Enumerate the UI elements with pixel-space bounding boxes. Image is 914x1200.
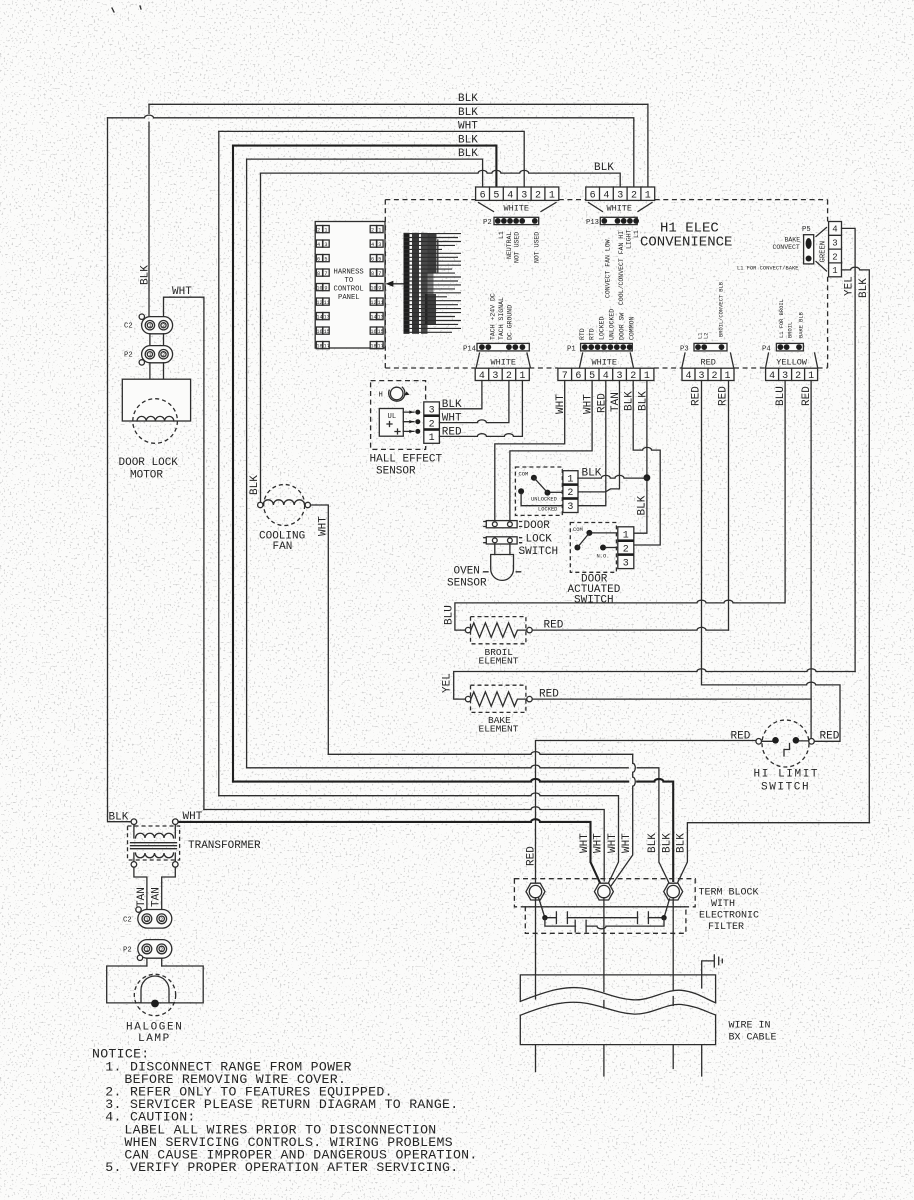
- P13 rotated signal labels: [605, 229, 641, 305]
- svg-text:4: 4: [769, 371, 775, 382]
- wire hall pin1 RED to P14 pin1 with hops: [439, 381, 522, 437]
- svg-text:RTD: RTD: [589, 328, 596, 340]
- svg-text:BLK: BLK: [647, 833, 659, 853]
- svg-text:YEL: YEL: [844, 276, 856, 296]
- wire door lock pin1 to junction with hops: [578, 475, 647, 478]
- hall effect sensor dashed box: [371, 381, 426, 450]
- BX cable bottom band: [520, 1015, 715, 1045]
- wire W1 drop to P13 pin1: [647, 104, 649, 187]
- wire C2 to P2 pins: [150, 334, 164, 346]
- P1 rotated signal labels: [579, 309, 636, 340]
- BX cable bottom stubs: [536, 1045, 702, 1076]
- svg-text:BLK: BLK: [594, 162, 614, 174]
- svg-text:2: 2: [832, 252, 837, 262]
- wire W1 BLK top: [149, 103, 648, 105]
- harness to control panel block: [315, 222, 385, 349]
- wire P5 BLK y822.7 to term3: [677, 823, 869, 884]
- svg-text:17: 17: [324, 343, 330, 349]
- svg-text:LOCKED: LOCKED: [538, 506, 557, 512]
- svg-text:9: 9: [378, 285, 381, 291]
- svg-text:BLK: BLK: [458, 107, 478, 119]
- svg-text:4: 4: [603, 190, 609, 201]
- oven sensor connector 2: [484, 537, 522, 544]
- svg-text:TAN: TAN: [610, 392, 622, 412]
- transformer terminals bottom: [131, 862, 137, 868]
- term block dashed box: [514, 879, 695, 907]
- svg-text:TACH +24V DC: TACH +24V DC: [490, 293, 497, 340]
- wire hall pin2 WHT to P14 pin2 with hop: [439, 381, 509, 423]
- wire broil RED to P3 pin1 with hop: [532, 627, 728, 630]
- svg-text:6: 6: [480, 190, 486, 201]
- svg-text:BROIL: BROIL: [788, 322, 794, 338]
- transformer primary coil: [134, 825, 175, 839]
- svg-text:BLK: BLK: [458, 135, 478, 147]
- svg-text:13: 13: [324, 314, 330, 320]
- svg-text:ELEMENT: ELEMENT: [479, 724, 519, 735]
- svg-text:TRANSFORMER: TRANSFORMER: [188, 840, 261, 852]
- svg-text:18: 18: [316, 343, 322, 349]
- svg-text:1: 1: [149, 323, 152, 329]
- svg-text:6: 6: [590, 190, 596, 201]
- wire P1 pin3 TAN to door lock sw pin2: [578, 381, 620, 492]
- svg-text:1: 1: [324, 227, 327, 233]
- svg-text:BLK: BLK: [858, 278, 870, 298]
- svg-text:WHITE: WHITE: [504, 204, 530, 214]
- connector P2 (halogen): [123, 940, 172, 961]
- svg-text:BROIL/CONVECT BLB: BROIL/CONVECT BLB: [719, 281, 725, 337]
- svg-text:C2: C2: [124, 323, 133, 331]
- svg-text:5: 5: [324, 256, 327, 262]
- wire P3 pin1 vertical: [728, 381, 730, 631]
- ground symbol: [702, 961, 714, 975]
- wire P5 pin4 YEL: [842, 228, 856, 671]
- connector P5 pin strip: [802, 226, 814, 264]
- svg-text:2: 2: [623, 544, 629, 555]
- harness block right pin boxes: [370, 226, 383, 349]
- halogen lamp dashed circle: [134, 974, 175, 1015]
- svg-text:L1: L1: [633, 230, 640, 238]
- svg-text:NOT USED: NOT USED: [534, 232, 541, 263]
- connector P2 pin boxes: [476, 187, 559, 201]
- svg-text:WHT: WHT: [172, 286, 192, 298]
- harness block pin numbers: [316, 227, 383, 349]
- svg-text:10: 10: [370, 285, 376, 291]
- terminal 3: [664, 883, 683, 900]
- wire cooling fan WHT to term block: [311, 505, 329, 754]
- svg-text:GREEN: GREEN: [820, 241, 828, 263]
- svg-text:WHT: WHT: [621, 833, 633, 853]
- wire P1 pin7 WHT to oven sensor: [495, 381, 565, 521]
- wire P5 pin1 BLK with hop: [842, 267, 870, 823]
- svg-text:1: 1: [429, 433, 435, 444]
- svg-text:16: 16: [316, 329, 322, 335]
- svg-text:RED: RED: [701, 358, 716, 368]
- svg-text:P14: P14: [463, 346, 476, 354]
- svg-text:PANEL: PANEL: [338, 294, 360, 302]
- wire W3 vertical left: [218, 131, 220, 795]
- connector P14 trapezoid WHITE: [476, 353, 530, 367]
- svg-text:COOL/CONVECT FAN HI: COOL/CONVECT FAN HI: [618, 231, 625, 305]
- hi limit terminals: [756, 739, 762, 745]
- svg-text:17: 17: [378, 343, 384, 349]
- svg-text:BLK: BLK: [458, 148, 478, 160]
- door lock motor box: [122, 379, 190, 421]
- svg-text:TAN: TAN: [136, 887, 148, 907]
- cooling fan coil: [263, 500, 305, 505]
- svg-text:TO: TO: [345, 277, 354, 285]
- svg-text:SENSOR: SENSOR: [447, 577, 487, 589]
- wire WHT from C2 pin2 down left side: [164, 297, 204, 809]
- connector P4 pin strip: [762, 343, 803, 353]
- hall effect sensor rotor circle: [390, 387, 403, 400]
- svg-text:BAKE BLB: BAKE BLB: [799, 311, 805, 338]
- svg-text:DC GROUND: DC GROUND: [507, 305, 514, 340]
- wire bundle y795.7 to term2: [219, 793, 619, 884]
- harness block left pin boxes: [316, 226, 329, 349]
- svg-text:N.O.: N.O.: [597, 553, 610, 559]
- terminal 1: [526, 883, 545, 900]
- wires terminals down to BX cable: [536, 898, 674, 975]
- svg-text:WIRE IN: WIRE IN: [729, 1021, 771, 1032]
- term block filter dashed box: [525, 907, 686, 934]
- svg-text:3: 3: [832, 239, 837, 249]
- svg-text:NOT USED: NOT USED: [514, 232, 521, 263]
- svg-text:YEL: YEL: [442, 673, 454, 693]
- svg-text:COM: COM: [573, 527, 583, 533]
- svg-text:11: 11: [324, 300, 330, 306]
- svg-text:RED: RED: [820, 731, 840, 743]
- svg-text:12: 12: [370, 300, 376, 306]
- dense signal table block: [404, 233, 438, 334]
- wire bundle y781.6 to term3 with hops: [233, 779, 673, 881]
- wire P1 pin4 RED to door lock sw pin3: [578, 381, 606, 506]
- svg-text:1: 1: [146, 917, 149, 923]
- wire hall pin3 BLK to P14 pin4: [439, 381, 482, 409]
- svg-text:P2: P2: [124, 352, 133, 360]
- hi limit contacts: [772, 737, 779, 744]
- H1 control dashed box right edge: [827, 200, 829, 368]
- notice text block: [92, 1047, 478, 1176]
- junction dot BLK: [644, 474, 651, 481]
- svg-text:FAN: FAN: [273, 541, 293, 553]
- svg-text:RTD: RTD: [579, 328, 586, 340]
- wire P4 pin1 RED to hi-limit right terminal: [810, 381, 812, 739]
- svg-text:14: 14: [316, 314, 322, 320]
- svg-text:WHITE: WHITE: [592, 358, 618, 368]
- bake element dashed box: [471, 685, 526, 712]
- svg-text:ELECTRONIC: ELECTRONIC: [699, 911, 759, 922]
- transformer secondary coil: [134, 853, 175, 862]
- svg-text:LIGHT: LIGHT: [626, 229, 633, 249]
- svg-text:BAKE: BAKE: [785, 237, 801, 244]
- svg-text:P2: P2: [483, 219, 492, 227]
- svg-text:HARNESS: HARNESS: [334, 269, 364, 277]
- connector P1 trapezoid WHITE: [580, 353, 634, 367]
- svg-text:MOTOR: MOTOR: [130, 469, 163, 481]
- connector P3 pin boxes: [682, 368, 734, 382]
- wire P1 pin5 WHT to oven sensor: [510, 381, 592, 521]
- H1 control dashed box top edge: [385, 199, 827, 201]
- svg-text:SWITCH: SWITCH: [761, 782, 810, 794]
- hall sensor pin block: [424, 402, 440, 444]
- svg-text:15: 15: [378, 329, 384, 335]
- wire BLU P4 pin3 to broil element with hops: [455, 381, 785, 631]
- hall sensor arrows to pins: [403, 412, 414, 431]
- svg-text:SWITCH: SWITCH: [519, 546, 559, 558]
- connector P13 pin strip: [586, 217, 639, 227]
- page scan speck top left: [112, 6, 141, 12]
- connector P1 pin boxes: [558, 368, 654, 382]
- svg-text:WHT: WHT: [593, 833, 605, 853]
- svg-text:4: 4: [507, 190, 513, 201]
- svg-text:1: 1: [149, 352, 152, 358]
- connector P4 pin boxes: [766, 368, 818, 382]
- svg-text:3: 3: [378, 242, 381, 248]
- P2 rotated signal labels: [498, 231, 541, 263]
- svg-text:2: 2: [631, 190, 637, 201]
- wires transformer to C2 TAN: [134, 867, 175, 910]
- wire P2 to motor box: [150, 363, 164, 379]
- svg-text:2: 2: [429, 419, 435, 430]
- svg-text:2: 2: [371, 227, 374, 233]
- svg-text:DOOR LOCK: DOOR LOCK: [119, 457, 179, 469]
- wire transformer WHT y823 to term2: [178, 819, 600, 884]
- BX cable top band: [520, 975, 715, 1003]
- svg-text:TERM BLOCK: TERM BLOCK: [699, 888, 759, 899]
- wire W4 BLK top (thick): [233, 146, 496, 187]
- wire hi-limit left RED to term block: [536, 741, 756, 892]
- svg-text:UL: UL: [388, 413, 397, 421]
- svg-text:11: 11: [378, 300, 384, 306]
- connector P13 pin boxes: [586, 187, 655, 201]
- svg-text:2: 2: [712, 371, 718, 382]
- wire W6 BLK to P13 pin3 with hops: [261, 170, 621, 187]
- transformer core: [131, 843, 177, 849]
- svg-text:WHT: WHT: [458, 120, 478, 132]
- svg-text:5: 5: [378, 256, 381, 262]
- door actuated switch pin block: [618, 527, 634, 570]
- svg-text:WITH: WITH: [711, 899, 735, 910]
- wire P1 pin2 BLK to door actuated sw pin2: [633, 381, 660, 546]
- cooling fan terminals: [258, 502, 263, 507]
- svg-text:UNLOCKED: UNLOCKED: [609, 309, 616, 340]
- bake element terminals: [465, 696, 470, 701]
- P1 wire labels rotated: [555, 391, 650, 414]
- svg-text:CONVENIENCE: CONVENIENCE: [640, 235, 732, 251]
- door lock motor coil: [137, 416, 174, 421]
- broil element zigzag: [471, 623, 527, 637]
- svg-text:10: 10: [316, 285, 322, 291]
- svg-text:12: 12: [316, 300, 322, 306]
- svg-text:2: 2: [162, 323, 165, 329]
- svg-text:LOCK: LOCK: [526, 533, 553, 545]
- connector P1 pin strip: [567, 343, 632, 353]
- wire W5 vertical left: [246, 159, 248, 768]
- svg-text:L2: L2: [704, 333, 710, 339]
- door actuated switch dashed box: [570, 523, 616, 573]
- svg-text:HI LIMIT: HI LIMIT: [754, 769, 820, 781]
- wire bake RED to P4 pin1 vertical: [532, 698, 811, 700]
- svg-text:1: 1: [725, 371, 731, 382]
- P3 rotated signal labels: [698, 281, 725, 339]
- svg-text:BLU: BLU: [444, 605, 456, 625]
- connector P14 pin boxes: [475, 368, 529, 382]
- svg-text:HALL EFFECT: HALL EFFECT: [370, 454, 443, 466]
- wire W2 BLK top with hop: [108, 115, 634, 187]
- svg-text:5: 5: [493, 190, 499, 201]
- wire W4 vertical left: [232, 146, 234, 782]
- svg-text:NEUTRAL: NEUTRAL: [506, 232, 513, 259]
- svg-text:L1: L1: [498, 231, 505, 239]
- svg-text:BLK: BLK: [458, 93, 478, 105]
- hi limit switch dashed circle: [762, 720, 809, 767]
- svg-text:13: 13: [378, 314, 384, 320]
- wire bundle y809.5 to term2: [204, 807, 604, 881]
- svg-text:2: 2: [160, 947, 163, 953]
- svg-text:3: 3: [567, 502, 573, 513]
- svg-text:1: 1: [567, 474, 573, 485]
- svg-text:BLK: BLK: [637, 495, 649, 515]
- svg-text:1: 1: [549, 190, 555, 201]
- oven sensor bulb: [491, 555, 514, 581]
- svg-text:1: 1: [146, 947, 149, 953]
- wire bundle y767.8 to term3: [247, 765, 670, 884]
- svg-text:L1 FOR CONVECT/BAKE: L1 FOR CONVECT/BAKE: [737, 266, 798, 272]
- svg-text:BLK: BLK: [638, 391, 650, 411]
- svg-text:WHT: WHT: [607, 833, 619, 853]
- wire P1 pin1 BLK to junction and door actuated pin1: [634, 381, 647, 534]
- connector P5 trapezoid GREEN: [816, 228, 827, 272]
- svg-text:WHITE: WHITE: [491, 358, 517, 368]
- svg-text:3: 3: [492, 371, 498, 382]
- svg-text:BLK: BLK: [109, 812, 129, 824]
- P14 rotated signal labels: [490, 293, 514, 340]
- svg-text:4: 4: [317, 242, 320, 248]
- wire P3 pin3 L1 to hi-limit right: [702, 381, 841, 742]
- svg-text:YELLOW: YELLOW: [776, 358, 808, 368]
- svg-text:3: 3: [324, 242, 327, 248]
- filter capacitor network: [539, 898, 670, 918]
- arrow to harness block: [390, 283, 406, 285]
- svg-text:9: 9: [324, 285, 327, 291]
- svg-text:3: 3: [429, 406, 435, 417]
- svg-text:OVEN: OVEN: [454, 566, 480, 578]
- svg-text:WHT: WHT: [183, 811, 203, 823]
- svg-text:DOOR SW: DOOR SW: [619, 313, 626, 340]
- connector P2 pin strip: [483, 217, 539, 227]
- BX cable inner wire segments: [536, 975, 702, 999]
- svg-text:DOOR: DOOR: [524, 520, 551, 532]
- BX cable wave upper: [520, 988, 715, 1003]
- svg-text:6: 6: [575, 371, 581, 382]
- wire bundle y754 cooling fan WHT to term2: [328, 752, 632, 755]
- connector P3 pin strip: [680, 343, 727, 353]
- hall effect sensor IC box: [379, 409, 403, 437]
- svg-text:4: 4: [371, 242, 374, 248]
- connector C2 (door lock motor): [124, 314, 173, 334]
- svg-text:4: 4: [686, 371, 692, 382]
- svg-text:6: 6: [317, 256, 320, 262]
- svg-text:2: 2: [317, 227, 320, 233]
- svg-text:RED: RED: [526, 846, 538, 866]
- svg-text:CONTROL: CONTROL: [334, 286, 364, 294]
- svg-text:8: 8: [317, 271, 320, 277]
- svg-text:COMMON: COMMON: [629, 316, 636, 340]
- P4 rotated signal labels: [779, 299, 805, 338]
- svg-text:CONVECT: CONVECT: [773, 244, 800, 251]
- connector P4 trapezoid YELLOW: [766, 353, 818, 367]
- svg-text:C2: C2: [123, 917, 132, 925]
- svg-text:HALOGEN: HALOGEN: [126, 1022, 183, 1034]
- svg-text:2: 2: [160, 917, 163, 923]
- cooling fan dashed circle: [264, 485, 305, 526]
- wire W1 vertical to C2: [148, 104, 150, 316]
- svg-text:BLK: BLK: [662, 833, 674, 853]
- svg-text:14: 14: [370, 314, 376, 320]
- connector P5 pin boxes: [829, 222, 842, 277]
- svg-text:SENSOR: SENSOR: [376, 466, 416, 478]
- svg-text:3: 3: [617, 190, 623, 201]
- svg-text:P1: P1: [567, 346, 576, 354]
- hall sensor pin dots: [415, 410, 420, 415]
- svg-text:COM: COM: [519, 472, 529, 478]
- svg-text:ELEMENT: ELEMENT: [479, 656, 519, 667]
- svg-text:6: 6: [371, 256, 374, 262]
- svg-text:FILTER: FILTER: [708, 922, 744, 933]
- halogen lamp box: [107, 966, 204, 1003]
- connector P14 pin strip: [463, 343, 529, 353]
- wires P2 to halogen box: [147, 958, 162, 966]
- door lock motor dashed circle: [133, 399, 178, 444]
- svg-text:UNLOCKED: UNLOCKED: [531, 496, 557, 502]
- svg-text:7: 7: [378, 271, 381, 277]
- H1 control dashed box left edge: [384, 200, 386, 368]
- svg-text:LAMP: LAMP: [138, 1033, 171, 1045]
- oven sensor stubs: [495, 544, 510, 555]
- connector P2 (door lock motor): [124, 346, 173, 365]
- svg-text:2: 2: [162, 352, 165, 358]
- svg-text:TACH SIGNAL: TACH SIGNAL: [498, 297, 505, 340]
- dense block scan lines: [404, 234, 461, 333]
- svg-text:1: 1: [645, 190, 651, 201]
- svg-text:2: 2: [567, 488, 573, 499]
- svg-text:L1 FOR BROIL: L1 FOR BROIL: [779, 299, 785, 338]
- svg-text:BLK: BLK: [676, 833, 688, 853]
- svg-text:P3: P3: [680, 346, 689, 354]
- H1 control dashed box bottom edge: [385, 367, 827, 369]
- transformer dashed box: [128, 826, 180, 860]
- connector P3 trapezoid RED: [682, 353, 734, 367]
- terminal 2: [594, 883, 613, 900]
- broil element terminals: [465, 627, 470, 632]
- svg-text:4: 4: [832, 225, 837, 235]
- svg-text:P2: P2: [123, 947, 132, 955]
- wire YEL to bake element with hops: [454, 669, 855, 699]
- svg-text:BLK: BLK: [249, 475, 261, 495]
- wire W2 vertical left to transformer BLK: [108, 118, 132, 822]
- svg-text:WHITE: WHITE: [607, 204, 633, 214]
- transformer terminals top: [131, 819, 137, 825]
- oven sensor connector 1: [484, 521, 522, 528]
- svg-text:15: 15: [324, 329, 330, 335]
- svg-text:RED: RED: [597, 393, 609, 413]
- wire W3 WHT top: [219, 131, 524, 187]
- svg-text:5. VERIFY PROPER OPERATION AFT: 5. VERIFY PROPER OPERATION AFTER SERVICI…: [105, 1160, 458, 1175]
- svg-text:3: 3: [623, 558, 629, 569]
- connector P2 trapezoid WHITE: [479, 203, 557, 212]
- svg-text:18: 18: [370, 343, 376, 349]
- svg-text:3: 3: [521, 190, 527, 201]
